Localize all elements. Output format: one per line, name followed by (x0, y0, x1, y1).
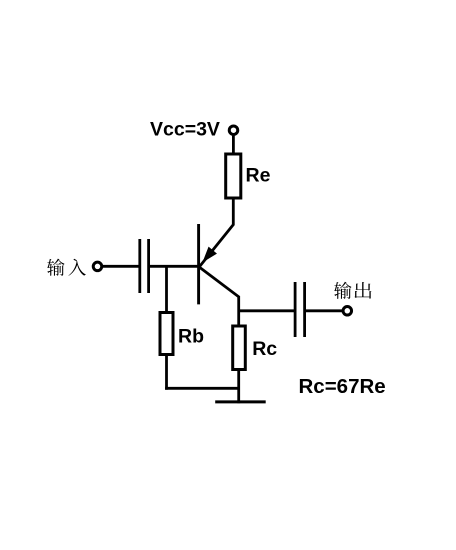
resistor Rb (160, 313, 173, 355)
wire Rc to ground (237, 370, 240, 404)
emitter arrow (PNP) (204, 248, 216, 261)
resistor Rc (233, 326, 246, 370)
svg-text:Rc: Rc (252, 338, 277, 360)
transistor collector diagonal (200, 267, 239, 326)
terminal output (343, 307, 352, 316)
wire junction to Rb (165, 265, 168, 312)
wire input (103, 265, 142, 268)
wire Vcc to Re (232, 136, 235, 154)
svg-text:Vcc=3V: Vcc=3V (150, 119, 220, 141)
svg-text:Rc=67Re: Rc=67Re (299, 375, 386, 398)
wire base (149, 265, 198, 268)
resistor Re (226, 154, 241, 198)
capacitor C-out left plate (294, 282, 297, 337)
label output (Chinese) (334, 282, 371, 299)
capacitor C-in right plate (147, 239, 150, 293)
capacitor C-in left plate (138, 239, 141, 293)
wire to output terminal (304, 309, 343, 312)
terminal Vcc (229, 126, 238, 135)
svg-text:Re: Re (246, 165, 271, 187)
transistor base bar (197, 224, 200, 304)
wire Rb to ground node (165, 387, 239, 390)
capacitor C-out right plate (303, 282, 306, 337)
wire Rb down (165, 355, 168, 390)
label input (Chinese) (47, 259, 86, 276)
terminal input (93, 262, 102, 271)
wire Re to emitter bend (200, 200, 233, 267)
wire output node (239, 309, 296, 312)
ground (215, 400, 266, 403)
svg-text:Rb: Rb (178, 326, 204, 348)
